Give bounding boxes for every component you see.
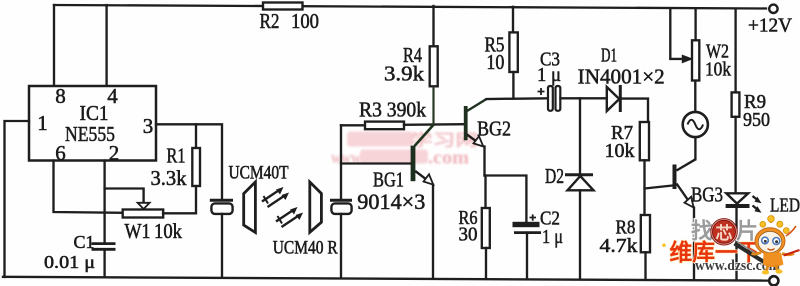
wire emitter branch to C2 bbox=[485, 176, 527, 222]
resistor R4 bbox=[384, 6, 438, 125]
svg-text:6: 6 bbox=[55, 141, 66, 165]
LED bbox=[726, 193, 800, 280]
capacitor C3 bbox=[537, 49, 561, 111]
wire pin6 bbox=[54, 161, 124, 213]
svg-text:3.9k: 3.9k bbox=[384, 62, 425, 86]
resistor R7 bbox=[605, 122, 650, 215]
wire BG2 emitter down bbox=[483, 147, 485, 176]
resistor R3 bbox=[341, 98, 464, 130]
svg-text:3.3k: 3.3k bbox=[151, 166, 187, 190]
diode D1 bbox=[578, 45, 665, 112]
resistor R9 bbox=[732, 9, 770, 194]
svg-text:+12V: +12V bbox=[748, 15, 793, 37]
potentiometer W2 bbox=[670, 8, 731, 80]
svg-text:8: 8 bbox=[55, 84, 66, 108]
svg-text:100: 100 bbox=[291, 9, 319, 33]
svg-text:UCM40T: UCM40T bbox=[229, 164, 289, 184]
top rail wire bbox=[54, 5, 766, 9]
svg-text:1 μ: 1 μ bbox=[542, 226, 563, 248]
transistor BG2 bbox=[464, 99, 511, 147]
wire pin8 riser bbox=[53, 5, 55, 87]
wiper arrow of W1 bbox=[138, 203, 150, 209]
watermark pink text block bbox=[331, 131, 478, 169]
resistor R5 bbox=[485, 7, 518, 99]
svg-text:30: 30 bbox=[459, 224, 478, 246]
wire base branch to BG3 bbox=[645, 186, 673, 189]
svg-text:10k: 10k bbox=[605, 140, 635, 162]
svg-text:1 μ: 1 μ bbox=[537, 64, 561, 86]
bottom terminal bbox=[769, 276, 778, 285]
dzsc watermark logo bbox=[662, 216, 800, 275]
wire C3 to D1 bbox=[561, 97, 607, 99]
svg-text:C1: C1 bbox=[74, 232, 95, 252]
horn of UCM40T bbox=[244, 182, 256, 233]
svg-text:2: 2 bbox=[109, 141, 120, 165]
resistor R8 bbox=[600, 215, 651, 279]
svg-text:3: 3 bbox=[143, 114, 154, 138]
mascot bbox=[752, 216, 800, 275]
wire pin4 riser bbox=[105, 5, 107, 87]
svg-text:D1: D1 bbox=[601, 45, 617, 67]
svg-text:R2: R2 bbox=[260, 9, 280, 33]
wire emitter to R6 bbox=[484, 176, 486, 209]
svg-text:BG2: BG2 bbox=[477, 117, 511, 141]
resistor R1 bbox=[151, 124, 201, 213]
svg-text:BG3: BG3 bbox=[691, 183, 723, 207]
svg-text:.com: .com bbox=[428, 148, 469, 169]
capacitor C1 bbox=[44, 232, 116, 277]
buzzer B (sine circle) bbox=[683, 81, 708, 160]
svg-text:UCM40 R: UCM40 R bbox=[273, 239, 339, 259]
capacitor C2 bbox=[513, 208, 564, 279]
svg-text:R1: R1 bbox=[167, 144, 186, 168]
op-amp IC1 NE555 bbox=[29, 84, 156, 165]
svg-text:0.01 μ: 0.01 μ bbox=[44, 252, 95, 272]
diode D2 bbox=[545, 98, 594, 278]
potentiometer W1 bbox=[123, 210, 183, 244]
svg-text:10k: 10k bbox=[154, 219, 182, 243]
wire D1 to R7 bbox=[621, 99, 648, 122]
wire pin1 to left rail bbox=[5, 121, 30, 277]
wire pin3 bbox=[156, 124, 222, 200]
transistor BG3 bbox=[673, 159, 724, 279]
svg-text:R3 390k: R3 390k bbox=[359, 98, 426, 122]
svg-text:D2: D2 bbox=[545, 164, 564, 188]
transistor BG1 bbox=[341, 125, 434, 278]
+12V terminal bbox=[769, 5, 777, 13]
svg-text:1: 1 bbox=[37, 111, 48, 135]
transducer UCM40T bbox=[210, 164, 289, 278]
ultrasonic wave arrows bbox=[262, 187, 303, 227]
horn of UCM40R bbox=[310, 182, 322, 232]
svg-text:W1: W1 bbox=[125, 219, 151, 243]
svg-text:4.7k: 4.7k bbox=[600, 235, 638, 257]
svg-text:NE555: NE555 bbox=[65, 122, 115, 146]
svg-text:4: 4 bbox=[107, 84, 118, 108]
wire pin2 branch to wiper bbox=[105, 189, 144, 203]
transducer UCM40R bbox=[273, 125, 352, 278]
svg-text:10: 10 bbox=[486, 50, 504, 74]
resistor R2 bbox=[260, 3, 320, 34]
wire BG2 collector to C3 bbox=[487, 97, 549, 100]
svg-text:9014×3: 9014×3 bbox=[357, 189, 425, 214]
resistor R6 bbox=[459, 207, 490, 278]
svg-text:950: 950 bbox=[743, 109, 770, 131]
bottom rail wire bbox=[3, 277, 769, 281]
wire pin2 bbox=[103, 161, 105, 244]
svg-text:LED: LED bbox=[770, 195, 800, 217]
svg-text:IN4001×2: IN4001×2 bbox=[578, 65, 665, 89]
svg-text:10k: 10k bbox=[705, 59, 731, 81]
